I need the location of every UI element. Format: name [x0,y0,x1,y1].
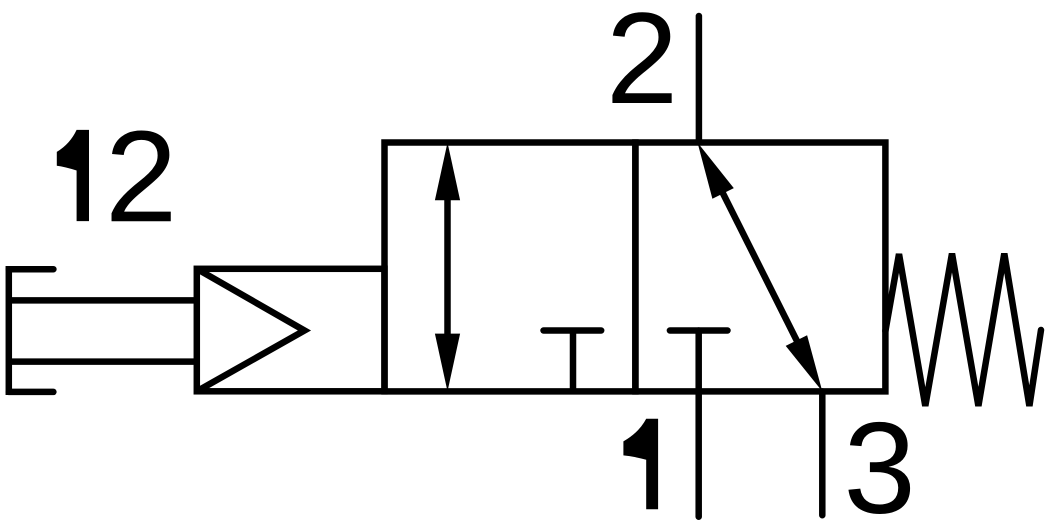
left square blocked port T [544,331,602,392]
pilot rod upper line [9,297,197,304]
right square diagonal flow arrow 2 to 3 [698,143,823,392]
pilot actuator box [197,269,385,392]
left square flow double arrow [435,143,460,392]
port label 1 [623,419,658,509]
svg-text:2: 2 [606,0,678,131]
port 1 line with T stem [695,331,702,517]
valve body left square [385,143,636,392]
valve body right square [635,143,885,392]
svg-text:2: 2 [105,103,177,249]
right square blocked port T [670,327,728,334]
svg-text:3: 3 [844,395,916,523]
port 2 line [696,16,703,143]
port 3 line [819,391,826,515]
pilot plunger bracket [9,266,54,395]
return spring [885,254,1041,407]
pilot port label 12 [57,103,178,249]
pilot rod lower line [9,358,197,365]
pilot triangle [197,269,305,392]
